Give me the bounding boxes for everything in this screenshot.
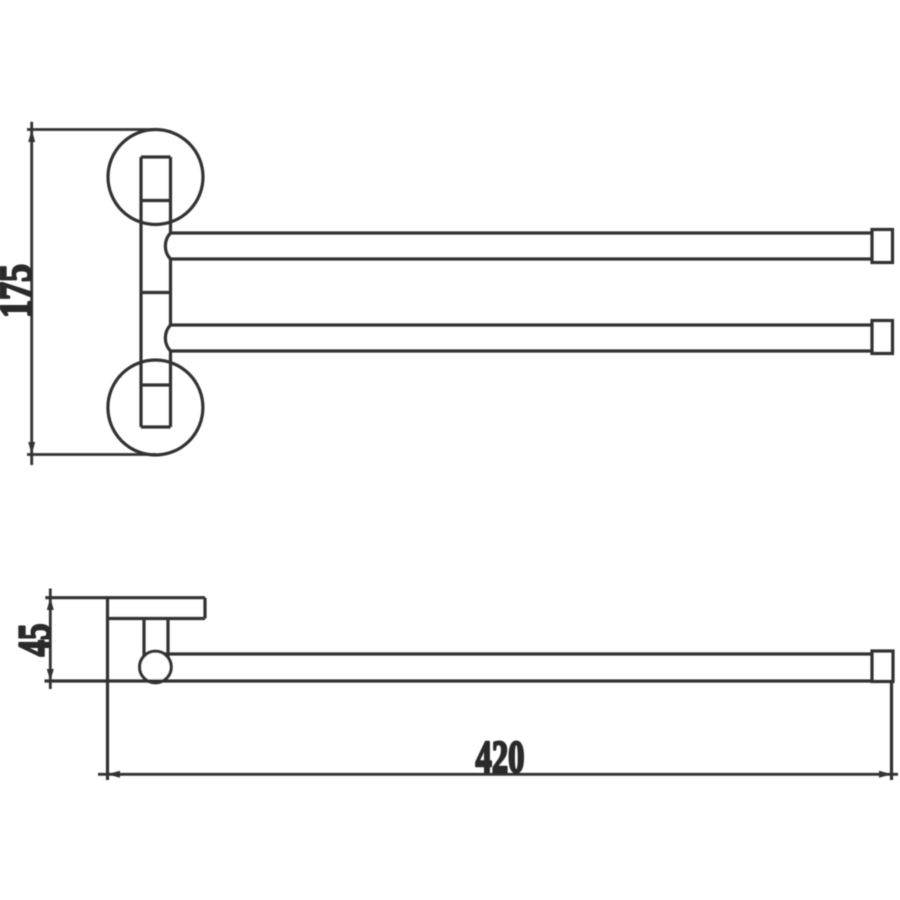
dimension 175: lower arrowhead [28, 442, 35, 455]
top view: post divider line 3 [141, 383, 171, 386]
top view: swivel arm 2 bottom edge [171, 349, 873, 352]
front view: towel bar end cap [872, 651, 893, 682]
dimension 45: vertical dimension line [49, 589, 52, 690]
front view: pivot stem left edge [142, 619, 145, 658]
front view: wall plate top edge with 45-dim extension line [45, 596, 205, 599]
top view: swivel arm 2 pivot knuckle arc [165, 325, 170, 351]
svg-text:420: 420 [476, 731, 525, 782]
dimension 175: top extension line [27, 128, 156, 131]
dimension 175: vertical dimension line [30, 122, 33, 465]
dimension 175: bottom extension line [27, 453, 156, 456]
front view: wall plate bottom edge [108, 617, 206, 620]
front view: 420-dim right extension line [890, 683, 893, 780]
top view: wall-mount rosette circle (lower) [108, 360, 203, 455]
front view: pivot stem right edge [166, 619, 169, 658]
top view: mounting post bar left edge [139, 157, 142, 427]
front view: pivot ball circle [140, 651, 172, 683]
top view: mounting post bar bottom edge [141, 425, 171, 428]
svg-text:45: 45 [9, 624, 60, 657]
dimension 420: right arrowhead [879, 771, 892, 778]
dimension 45: lower arrowhead [47, 669, 54, 681]
top view: wall-mount rosette circle (upper) [108, 130, 203, 225]
top view: swivel arm 2 top edge [171, 323, 873, 326]
dimension 420: horizontal dimension line [98, 773, 898, 776]
front view: towel bar top edge [165, 652, 873, 655]
front view: wall plate right edge [203, 598, 206, 619]
dimension 420: left arrowhead [108, 771, 121, 778]
top view: mounting post bar top edge [141, 155, 171, 158]
top view: swivel arm 1 end cap [872, 230, 893, 263]
top view: swivel arm 1 bottom edge [171, 257, 873, 260]
dimension 45: upper arrowhead [47, 598, 54, 610]
front view: towel bar bottom edge with 45-dim extension line [45, 679, 873, 682]
top view: mounting post bar right edge segments [169, 157, 172, 233]
top view: swivel arm 1 pivot knuckle arc [165, 233, 170, 259]
front view: wall plate edge / extension line (vertical) [106, 598, 109, 780]
top view: swivel arm 2 end cap [872, 321, 893, 354]
svg-text:175: 175 [0, 264, 41, 318]
dimension 175: upper arrowhead [28, 130, 35, 143]
top view: post divider line 1 [141, 199, 171, 202]
top view: swivel arm 1 top edge [171, 231, 873, 234]
top view: post divider line 2 [141, 291, 171, 294]
